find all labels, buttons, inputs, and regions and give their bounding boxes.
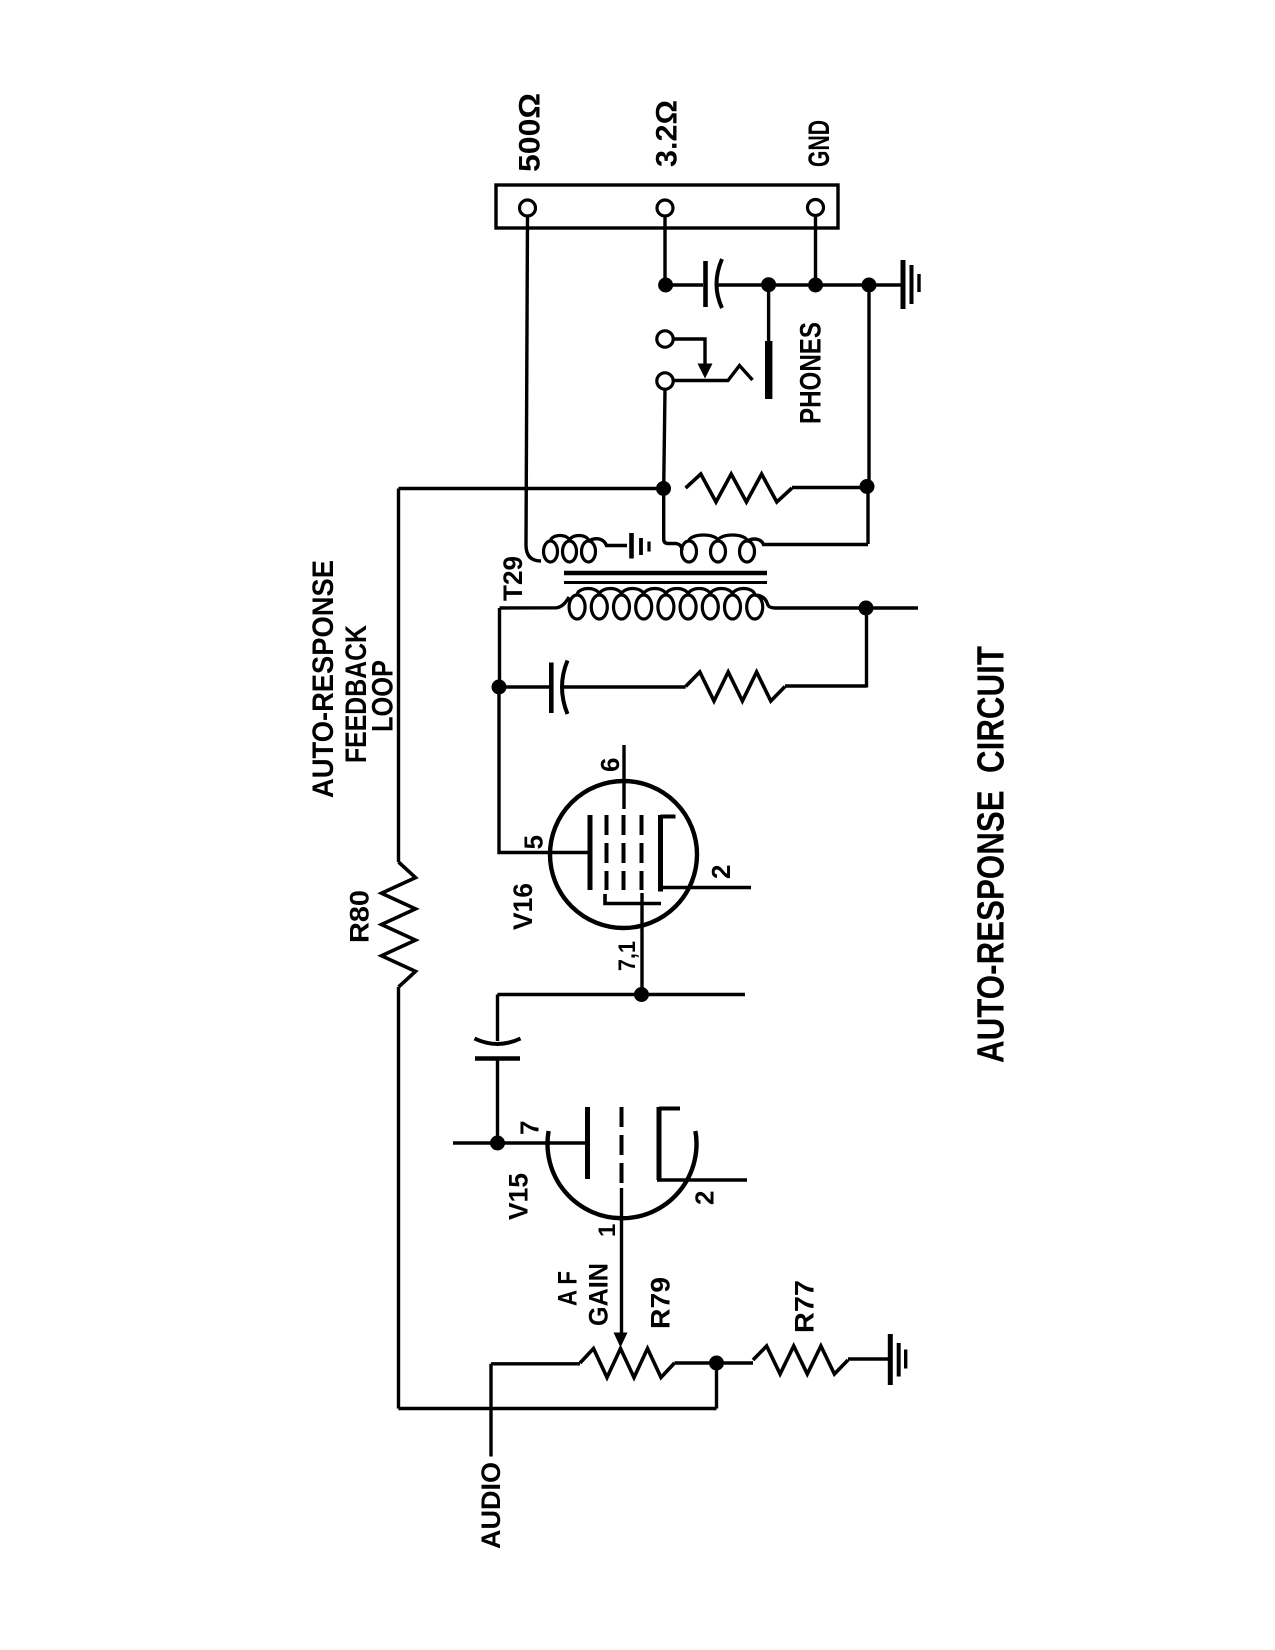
wire damper junction to capacitor C2 bbox=[499, 685, 549, 688]
svg-text:GAIN: GAIN bbox=[584, 1263, 614, 1326]
wire capacitor C2 to damper resistor bbox=[563, 685, 686, 688]
V15 grid bar bbox=[585, 1107, 590, 1179]
wire AUDIO input bbox=[489, 1364, 492, 1457]
junction shunt/right riser bbox=[860, 479, 875, 494]
V16 pin 2 lead bbox=[658, 886, 751, 889]
svg-text:3.2Ω: 3.2Ω bbox=[650, 100, 683, 167]
V16 pins 7,1 lead bbox=[640, 893, 643, 995]
junction feedback/jack/shunt resistor bbox=[656, 481, 671, 496]
svg-text:R79: R79 bbox=[646, 1277, 676, 1329]
wire feedback junction down to primary right bbox=[664, 489, 682, 551]
junction secondary left / damper bbox=[492, 680, 507, 695]
transformer T29 core bbox=[564, 573, 767, 583]
feedback loop left vertical (lower) bbox=[397, 987, 400, 1409]
svg-text:AUDIO: AUDIO bbox=[476, 1462, 506, 1549]
terminal GND bbox=[808, 200, 824, 216]
wire secondary right stub bbox=[866, 606, 918, 609]
ground symbol transformer center tap bbox=[632, 533, 650, 559]
wire 3.2-ohm terminal to junction bbox=[663, 216, 666, 285]
phone plug body bbox=[765, 341, 772, 399]
wire right riser to shunt resistor junction bbox=[867, 285, 870, 487]
V15 pin 2 lead bbox=[657, 1178, 747, 1181]
tube V15 envelope (half) bbox=[548, 1131, 697, 1218]
svg-text:LOOP: LOOP bbox=[366, 660, 399, 732]
wire C3 to V15 grid node bbox=[496, 1059, 499, 1144]
jack J1 tip contact circle bbox=[657, 331, 673, 347]
svg-text:1: 1 bbox=[594, 1224, 621, 1237]
feedback loop top wire bbox=[399, 487, 664, 490]
capacitor C1 bbox=[706, 259, 723, 308]
wire GND terminal to junction bbox=[814, 216, 817, 286]
wire secondary right end bbox=[755, 595, 866, 608]
transformer T29 primary winding left bbox=[544, 536, 596, 563]
svg-text:7,1: 7,1 bbox=[614, 941, 641, 971]
wire secondary left riser down bbox=[498, 608, 501, 687]
junction right riser node bbox=[862, 278, 877, 293]
terminal 500-ohm bbox=[520, 200, 536, 216]
svg-text:6: 6 bbox=[595, 758, 625, 772]
junction V16 cathode row bbox=[634, 987, 649, 1002]
wire plug node down bbox=[767, 285, 770, 341]
svg-text:7: 7 bbox=[514, 1121, 544, 1135]
svg-text:PHONES: PHONES bbox=[794, 322, 827, 424]
svg-text:V16: V16 bbox=[508, 883, 538, 930]
junction 3.2-ohm/C1 bbox=[658, 278, 673, 293]
junction phones plug node bbox=[761, 277, 776, 292]
svg-text:2: 2 bbox=[689, 1191, 719, 1205]
junction R79/R77/feedback bbox=[709, 1356, 724, 1371]
V16 grid 2 (dashed) bbox=[622, 815, 626, 890]
terminal strip TB1 bbox=[496, 185, 838, 228]
wire R77 to ground bbox=[848, 1357, 890, 1360]
wire primary right to riser bbox=[747, 539, 868, 544]
V16 grid 3 (dashed) bbox=[640, 815, 644, 890]
V16 pin 6 lead bbox=[622, 745, 625, 809]
feedback loop left vertical (upper) bbox=[397, 489, 400, 863]
svg-text:500Ω: 500Ω bbox=[513, 93, 546, 172]
ground symbol top right bbox=[903, 260, 919, 309]
wire V15 grid node stub bbox=[453, 1141, 585, 1144]
wire pot right lead bbox=[675, 1361, 754, 1364]
svg-text:A F: A F bbox=[553, 1271, 583, 1306]
potentiometer wiper arrow bbox=[614, 1333, 628, 1348]
wire junction to capacitor C1 left plate bbox=[666, 283, 703, 286]
wire pot left lead bbox=[491, 1362, 580, 1365]
wire damper resistor to right riser bbox=[785, 684, 867, 687]
wire cathode row corner down to C3 bbox=[496, 995, 499, 1042]
wire capacitor C1 to ground bus bbox=[717, 283, 901, 286]
jack J1 sleeve contact circle bbox=[657, 373, 673, 389]
potentiometer R79 bbox=[580, 1349, 675, 1378]
feedback loop bottom wire bbox=[399, 1407, 717, 1410]
junction GND wire node bbox=[808, 278, 823, 293]
wire right riser to primary winding bbox=[866, 487, 869, 545]
wire jack sleeve down to feedback junction bbox=[664, 389, 665, 488]
wire jack tip to arrow bbox=[674, 339, 706, 364]
svg-text:R77: R77 bbox=[790, 1280, 820, 1333]
junction V15 grid node bbox=[490, 1136, 505, 1151]
resistor R80 bbox=[382, 862, 416, 987]
svg-text:5: 5 bbox=[518, 835, 548, 849]
wire secondary left end bbox=[500, 597, 570, 608]
svg-text:R80: R80 bbox=[345, 890, 375, 943]
svg-text:GND: GND bbox=[803, 120, 836, 167]
resistor R77 bbox=[753, 1346, 848, 1374]
capacitor C3 bbox=[475, 1039, 521, 1059]
terminal 3.2-ohm bbox=[657, 200, 673, 216]
jack plug-entry arrow bbox=[698, 364, 713, 379]
wire damper junction down to V16 plate lead bbox=[499, 687, 588, 853]
wire primary left to center-tap ground bbox=[589, 539, 628, 546]
svg-text:AUTO-RESPONSE: AUTO-RESPONSE bbox=[307, 560, 340, 798]
svg-text:V15: V15 bbox=[504, 1173, 534, 1220]
V15 grid (dashed) bbox=[620, 1107, 624, 1186]
V16 cathode bbox=[661, 815, 676, 892]
wire cathode row bbox=[498, 993, 746, 996]
wire shunt resistor to right riser bbox=[792, 486, 867, 489]
wire 500-ohm terminal to transformer primary bbox=[526, 216, 541, 561]
transformer T29 primary winding right bbox=[682, 535, 755, 562]
transformer T29 secondary winding bbox=[569, 589, 763, 620]
svg-text:AUTO-RESPONSE CIRCUIT: AUTO-RESPONSE CIRCUIT bbox=[971, 646, 1013, 1063]
V16 heater bracket bbox=[605, 894, 661, 904]
V15 cathode bbox=[659, 1107, 680, 1180]
wire junction down to feedback bottom bbox=[715, 1363, 718, 1409]
V16 plate bar bbox=[588, 815, 593, 890]
junction secondary right bbox=[859, 601, 874, 616]
wire damper right riser bbox=[865, 608, 868, 688]
resistor damper bbox=[686, 672, 785, 701]
jack spring contact lever bbox=[674, 366, 753, 381]
svg-text:T29: T29 bbox=[498, 556, 528, 601]
ground symbol bottom right bbox=[890, 1334, 905, 1385]
V15 pin 1 lead to wiper arrow bbox=[620, 1188, 623, 1334]
svg-text:2: 2 bbox=[706, 865, 736, 879]
V16 grid 1 (dashed) bbox=[605, 815, 609, 890]
tube V16 envelope bbox=[550, 781, 697, 928]
resistor phones shunt bbox=[686, 474, 792, 502]
capacitor C2 bbox=[551, 661, 567, 715]
